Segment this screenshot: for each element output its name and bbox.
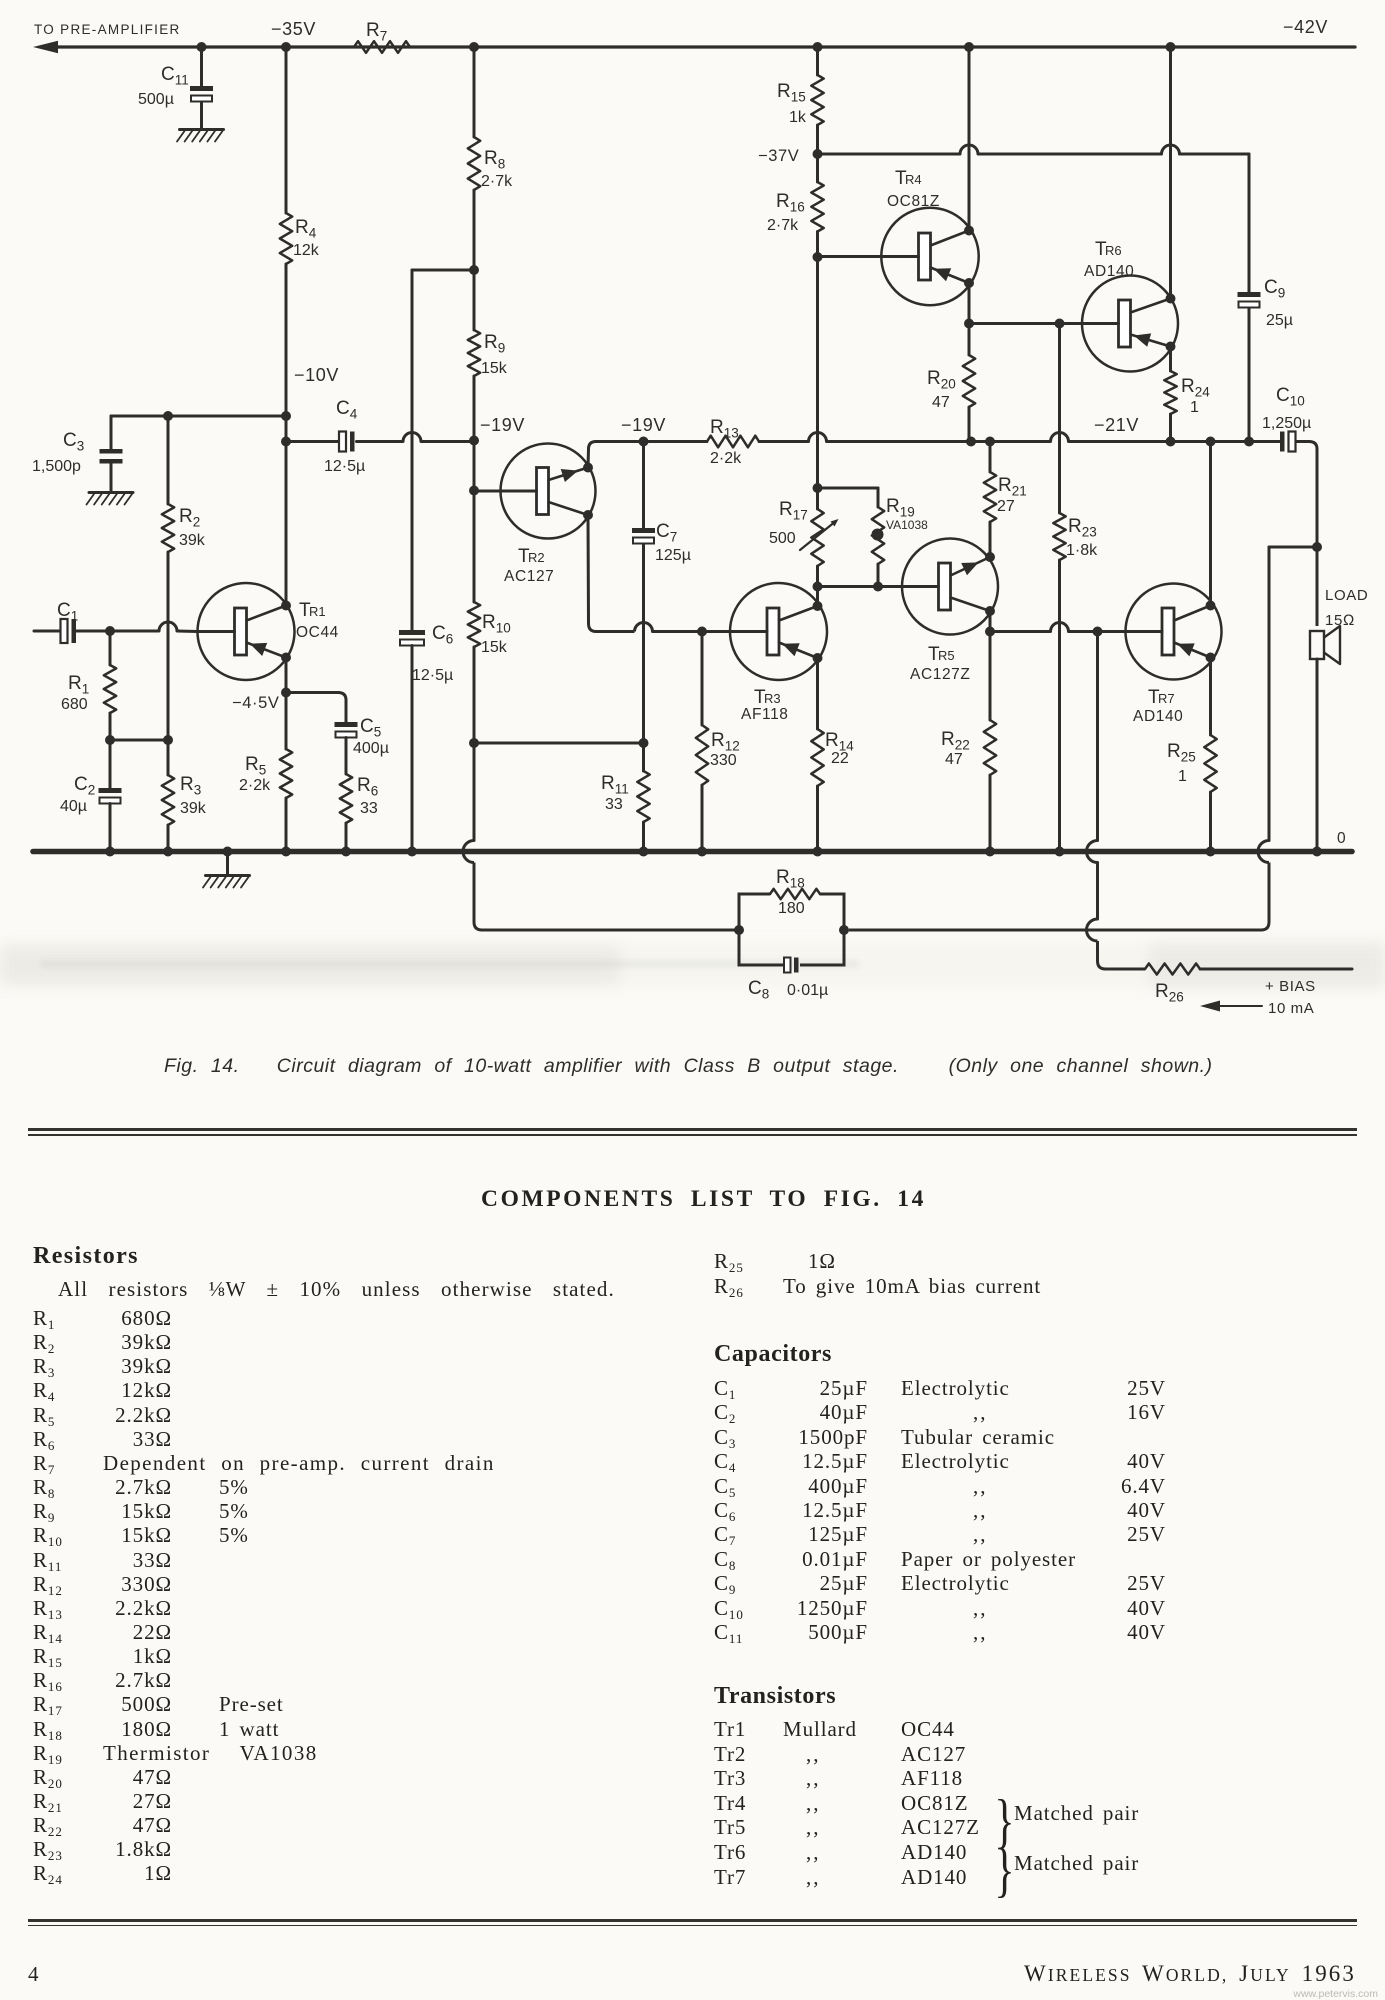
svg-text:15k: 15k: [481, 639, 508, 656]
svg-text:0·01µ: 0·01µ: [787, 982, 828, 999]
node bus R5: [281, 847, 291, 857]
wire R24 to mid rail: [1169, 414, 1172, 442]
wire C6 to bus: [411, 646, 414, 852]
svg-text:1: 1: [1178, 768, 1187, 785]
transistors section: [714, 1683, 836, 1710]
svg-text:R2: R2: [179, 506, 200, 530]
wire TR6 emitter to R24: [1169, 347, 1172, 372]
svg-text:2·7k: 2·7k: [481, 173, 513, 190]
node -10V junction: [281, 411, 291, 421]
svg-text:400µ: 400µ: [353, 740, 389, 757]
wire -35V line above R4: [285, 47, 288, 213]
wire R8 to R9: [473, 190, 476, 330]
wire C3 stem: [110, 416, 113, 492]
wire R16 to R17: [816, 232, 819, 510]
svg-text:12·5µ: 12·5µ: [324, 458, 365, 475]
transistor TR2 (AC127): [474, 444, 596, 586]
svg-text:AC127: AC127: [504, 568, 554, 585]
label -19V left: [480, 415, 525, 435]
node bus R12: [697, 847, 707, 857]
svg-text:R4: R4: [905, 172, 922, 187]
svg-text:12k: 12k: [293, 242, 320, 259]
transistor TR7 (AD140): [1126, 584, 1222, 726]
svg-text:R5: R5: [938, 648, 955, 663]
svg-text:C11: C11: [161, 64, 189, 88]
node R21 top junction: [985, 437, 995, 447]
capacitor C5: [335, 716, 389, 757]
wire TR3 emitter to R14: [816, 658, 819, 729]
node bias line tee: [1093, 627, 1103, 637]
node bus R14: [813, 847, 823, 857]
node R24 bottom junction: [1166, 437, 1176, 447]
svg-text:+ BIAS: + BIAS: [1265, 978, 1316, 995]
node TR5 collector tee: [985, 627, 995, 637]
wire -19V node to TR2 base node: [473, 441, 476, 491]
node TR6 base tee: [964, 319, 974, 329]
node bus R25: [1206, 847, 1216, 857]
node TR2 base tee: [469, 486, 479, 496]
resistor R14: [811, 729, 854, 786]
resistor R21: [984, 442, 1027, 558]
svg-text:R10: R10: [482, 612, 511, 636]
svg-text:22: 22: [831, 750, 849, 767]
node bus R23: [1055, 847, 1065, 857]
wire R10 down to feedback loop: [463, 647, 739, 930]
wire feedback drop: [849, 547, 1269, 930]
svg-text:40µ: 40µ: [60, 798, 87, 815]
wire C6 top: [411, 270, 414, 630]
svg-text:R3: R3: [764, 691, 781, 706]
wire TR5 base link: [818, 585, 903, 588]
node TR7 collector line junction: [1206, 437, 1216, 447]
svg-text:R12: R12: [711, 730, 740, 754]
wire TR3 base from TR2: [635, 623, 731, 632]
node junction R15 line/top rail: [813, 42, 823, 52]
svg-text:R21: R21: [998, 475, 1027, 499]
wire rail to R15: [816, 47, 819, 75]
svg-text:R4: R4: [295, 217, 317, 241]
svg-text:C4: C4: [336, 398, 358, 422]
label -35V: [271, 19, 316, 39]
transistor TR1 (OC44): [198, 583, 339, 680]
resistor R12: [696, 632, 740, 786]
node bus ground tap: [223, 847, 233, 857]
svg-text:125µ: 125µ: [655, 547, 691, 564]
wire TR2 base node to R10: [473, 491, 476, 603]
wire -4.5V to C5: [286, 693, 346, 723]
svg-text:C8: C8: [748, 978, 769, 1002]
wire TR6 collector to rail: [1169, 47, 1172, 299]
node R23 top tee: [1055, 319, 1065, 329]
svg-text:R6: R6: [1105, 243, 1122, 258]
matched pair braces: [994, 1787, 1014, 1856]
wire C5 to R6: [345, 738, 348, 775]
svg-text:R1: R1: [309, 604, 326, 619]
wire R17 to TR5 base tee: [816, 566, 819, 587]
svg-text:15k: 15k: [481, 360, 508, 377]
node bus R3: [163, 847, 173, 857]
label -42V: [1283, 17, 1328, 37]
wire C9 stem: [1248, 154, 1251, 442]
wire R5 to bus: [285, 798, 288, 852]
svg-text:VA1038: VA1038: [886, 518, 928, 532]
svg-text:R19: R19: [886, 496, 915, 520]
right column R25/R26: [714, 1250, 1374, 1275]
wire load to bus: [1316, 659, 1319, 852]
bottom double rule: [28, 1919, 1357, 1927]
svg-text:R1: R1: [68, 673, 89, 697]
node bus C6: [407, 847, 417, 857]
wire C1 to TR1 base: [77, 622, 198, 632]
resistor R17 preset: [769, 499, 839, 566]
svg-text:1,250µ: 1,250µ: [1262, 415, 1311, 432]
ground below C3: [87, 493, 134, 505]
wire tee to TR3 collector: [816, 587, 819, 607]
node R12 top junction: [697, 627, 707, 637]
wire TR2 collector down to TR3 base wire: [588, 515, 635, 632]
resistor R13: [707, 417, 759, 467]
svg-text:39k: 39k: [180, 800, 207, 817]
node -19V junction: [469, 436, 479, 446]
svg-text:−10V: −10V: [294, 365, 339, 385]
wire 0V bus: [33, 849, 1352, 855]
resistor R5: [239, 749, 292, 798]
resistor R24: [1164, 371, 1210, 416]
svg-text:2·2k: 2·2k: [239, 777, 271, 794]
wire R23 line upper: [1058, 324, 1061, 514]
svg-text:C6: C6: [432, 623, 453, 647]
node R11 tee on R10 line: [469, 738, 479, 748]
resistor R1: [61, 631, 116, 713]
svg-text:R18: R18: [776, 867, 805, 891]
wire mid rail segment1: [596, 440, 707, 443]
svg-text:C3: C3: [63, 430, 84, 454]
svg-text:39k: 39k: [179, 532, 206, 549]
svg-text:−19V: −19V: [480, 415, 525, 435]
wire rail to R8: [473, 47, 476, 137]
resistor R16: [767, 182, 824, 234]
node R8/R9 tee: [469, 265, 479, 275]
node C4 tee junction: [281, 437, 291, 447]
svg-text:C1: C1: [57, 600, 78, 624]
svg-text:1,500p: 1,500p: [32, 458, 81, 475]
resistor R15: [777, 75, 824, 126]
svg-text:R3: R3: [180, 774, 201, 798]
wire tee to C6 column: [412, 269, 474, 272]
node junction -35V line/top rail: [281, 42, 291, 52]
svg-text:33: 33: [605, 796, 623, 813]
resistor R6: [340, 774, 378, 823]
node R19 tee: [813, 483, 823, 493]
wire C2 to bus: [109, 804, 112, 852]
node R1/C2 junction: [105, 735, 115, 745]
label -37V: [758, 147, 799, 165]
wire TR1 emitter to R5: [285, 658, 288, 750]
node -37V junction: [813, 149, 823, 159]
wire R12 to bus: [701, 785, 704, 852]
wire R11 tee link: [474, 742, 644, 745]
loudspeaker LOAD 15 ohm: [1310, 587, 1368, 664]
label +BIAS: [1265, 978, 1316, 995]
svg-text:−42V: −42V: [1283, 17, 1328, 37]
wire R1 bottom to node: [109, 713, 112, 740]
svg-text:1·8k: 1·8k: [1066, 542, 1098, 559]
svg-text:10 mA: 10 mA: [1268, 1000, 1314, 1017]
wire bias line drop: [1087, 632, 1146, 970]
svg-text:500: 500: [769, 530, 796, 547]
transistor TR5 (AC127Z): [902, 539, 998, 684]
label -4.5V: [232, 694, 280, 712]
label TO PRE-AMPLIFIER: [34, 22, 181, 37]
wire R20 to mid rail: [968, 407, 971, 442]
svg-text:R13: R13: [710, 417, 739, 441]
svg-text:R11: R11: [601, 773, 629, 797]
svg-text:−21V: −21V: [1094, 415, 1139, 435]
capacitors section: [714, 1341, 832, 1368]
svg-text:R25: R25: [1167, 741, 1196, 765]
node -4.5V junction: [281, 688, 291, 698]
node bus R11: [639, 847, 649, 857]
resistor R26: [1145, 964, 1352, 1005]
svg-text:−4·5V: −4·5V: [232, 694, 280, 712]
resistor R11: [601, 743, 650, 822]
node load tap junction: [1312, 542, 1322, 552]
node bus LOAD: [1312, 847, 1322, 857]
node junction TR4 collector line/top rail: [964, 42, 974, 52]
node bus C2: [105, 847, 115, 857]
resistor R23: [1053, 513, 1098, 560]
capacitor C11: [138, 64, 213, 108]
heading: [481, 1186, 926, 1213]
svg-text:R17: R17: [779, 499, 808, 523]
wire C11 branch: [200, 47, 203, 129]
svg-text:−35V: −35V: [271, 19, 316, 39]
paper fold smudge band: [0, 944, 1385, 986]
svg-text:R9: R9: [484, 332, 505, 356]
node junction TR6 collector line/top rail: [1166, 42, 1176, 52]
wire C7 stem: [642, 442, 645, 744]
resistor R4: [280, 213, 320, 264]
resistor R3: [162, 774, 207, 825]
wire mid rail segment2: [759, 433, 1280, 442]
capacitor C1: [34, 600, 78, 643]
svg-text:1: 1: [1190, 399, 1199, 416]
svg-text:AC127Z: AC127Z: [910, 666, 970, 683]
svg-text:R24: R24: [1181, 376, 1210, 400]
svg-text:R7: R7: [1158, 691, 1175, 706]
svg-text:R20: R20: [927, 368, 956, 392]
wire R9 to -19V node: [473, 376, 476, 441]
wire TR5 collector down: [989, 611, 992, 632]
resistor R8: [468, 137, 513, 190]
footer: [28, 1962, 39, 1987]
node R17 bottom tee: [813, 582, 823, 592]
node C7/R11 junction: [639, 738, 649, 748]
capacitor C4 with wire: [286, 398, 474, 475]
svg-text:R16: R16: [776, 191, 805, 215]
resistor R10: [468, 602, 511, 656]
svg-text:680: 680: [61, 696, 88, 713]
wire R2 to R3: [167, 552, 170, 775]
wire TR7 emitter to R25: [1209, 658, 1212, 736]
resistor R22: [941, 632, 996, 776]
ground main bus: [203, 852, 250, 888]
svg-text:OC81Z: OC81Z: [887, 193, 940, 210]
wire TR7 collector to mid rail: [1209, 442, 1212, 606]
svg-text:TO PRE-AMPLIFIER: TO PRE-AMPLIFIER: [34, 22, 181, 37]
svg-text:R22: R22: [941, 729, 970, 753]
wire R11 to bus: [642, 822, 645, 852]
node junction C11/top rail: [197, 42, 207, 52]
node R18 box left junction: [734, 925, 744, 935]
svg-text:LOAD: LOAD: [1325, 587, 1368, 604]
label -10V: [294, 365, 339, 385]
svg-text:1k: 1k: [789, 109, 807, 126]
svg-text:AD140: AD140: [1133, 708, 1183, 725]
wire R1-R3 link: [110, 739, 168, 742]
wire R3 to bus: [167, 825, 170, 852]
wire R15 to R16: [816, 125, 819, 182]
wire C10 to load corner: [1297, 442, 1318, 627]
wire tee to TR7 base: [1098, 630, 1126, 633]
wire R23 line lower: [1058, 560, 1061, 852]
svg-text:27: 27: [997, 498, 1015, 515]
svg-text:47: 47: [945, 751, 963, 768]
svg-text:C10: C10: [1276, 385, 1305, 409]
svg-text:C9: C9: [1264, 277, 1285, 301]
capacitor C8: [739, 930, 844, 1002]
resistors section: [33, 1243, 139, 1270]
node junction R8 line/top rail: [469, 42, 479, 52]
node R3 top junction: [163, 735, 173, 745]
svg-text:R2: R2: [528, 550, 545, 565]
resistor R9: [468, 330, 508, 377]
transistor TR3 (AF118): [730, 583, 827, 723]
node C9 bottom junction: [1244, 437, 1254, 447]
wire R6 to bus: [345, 823, 348, 852]
wire TR6 base link: [969, 322, 1083, 325]
svg-text:2·7k: 2·7k: [767, 217, 799, 234]
wire -37V to C9: [818, 145, 1250, 154]
resistor R25: [1167, 735, 1217, 792]
svg-text:2·2k: 2·2k: [710, 450, 742, 467]
label -19V mid: [621, 415, 666, 435]
svg-text:500µ: 500µ: [138, 91, 174, 108]
resistor R18: [739, 867, 844, 930]
wire R4 to TR1 collector: [285, 264, 288, 606]
figure caption: [164, 1055, 1213, 1078]
svg-text:R7: R7: [366, 20, 387, 44]
wire load tap to feedback drop: [1269, 546, 1317, 549]
resistor R2: [162, 416, 206, 552]
svg-text:R26: R26: [1155, 981, 1184, 1005]
svg-text:AF118: AF118: [741, 706, 789, 723]
node R19 bottom junction: [873, 582, 883, 592]
node bus R6: [341, 847, 351, 857]
wire R14 to bus: [816, 786, 819, 852]
wire -10V to C3: [111, 415, 286, 418]
wire TR4 collector to rail: [968, 47, 971, 231]
svg-text:R23: R23: [1068, 516, 1097, 540]
capacitor C6: [399, 623, 453, 684]
svg-text:C5: C5: [360, 716, 381, 740]
svg-text:0: 0: [1337, 830, 1346, 847]
label -21V: [1094, 415, 1139, 435]
node TR4 base tee: [813, 252, 823, 262]
svg-text:15Ω: 15Ω: [1325, 612, 1355, 629]
wire top supply rail (-35V / -42V): [33, 41, 1355, 53]
svg-text:R15: R15: [777, 81, 806, 105]
svg-text:C2: C2: [74, 774, 95, 798]
wire R25 to bus: [1209, 792, 1212, 852]
node bus R22: [985, 847, 995, 857]
transistor TR4 (OC81Z): [818, 168, 979, 305]
capacitor C3: [32, 430, 123, 475]
node R2 top junction: [163, 411, 173, 421]
svg-text:180: 180: [778, 900, 805, 917]
thermistor R19 (VA1038): [872, 488, 929, 587]
node R1 top junction: [105, 626, 115, 636]
svg-text:C7: C7: [656, 521, 677, 545]
wire R22 to bus: [989, 775, 992, 852]
svg-text:12·5µ: 12·5µ: [412, 667, 453, 684]
wire TR2 emitter up to -19V rail: [588, 442, 596, 468]
svg-text:330: 330: [710, 752, 737, 769]
svg-text:25µ: 25µ: [1266, 312, 1293, 329]
top double rule: [28, 1128, 1357, 1136]
svg-text:R5: R5: [245, 754, 266, 778]
wire TR4 emitter to R20: [968, 283, 971, 355]
svg-text:R6: R6: [357, 775, 378, 799]
node R20 bottom junction: [966, 437, 976, 447]
wire TR5 collector to TR7 base: [990, 623, 1098, 632]
label 0: [1337, 830, 1346, 847]
svg-text:R8: R8: [484, 148, 505, 172]
capacitor C2: [60, 740, 122, 815]
svg-text:−19V: −19V: [621, 415, 666, 435]
node R18 box right junction: [839, 925, 849, 935]
node C7 junction: [639, 437, 649, 447]
svg-text:−37V: −37V: [758, 147, 799, 165]
capacitor C10: [1262, 385, 1311, 452]
label 10 mA with arrow: [1200, 1000, 1314, 1017]
capacitor C7: [632, 521, 691, 564]
resistor R7: [354, 20, 410, 53]
resistor R20: [927, 355, 975, 411]
transistor TR6 (AD140): [1082, 239, 1178, 372]
wire R19 top link: [818, 487, 879, 490]
svg-text:47: 47: [932, 394, 950, 411]
capacitor C9: [1238, 277, 1294, 329]
svg-text:OC44: OC44: [296, 624, 339, 641]
svg-text:AD140: AD140: [1084, 263, 1134, 280]
ground below C11: [177, 130, 224, 142]
svg-text:33: 33: [360, 800, 378, 817]
